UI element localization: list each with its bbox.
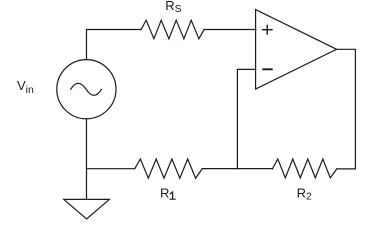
svg-text:RS: RS xyxy=(165,0,181,15)
svg-text:R2: R2 xyxy=(297,186,312,203)
svg-text:R: R xyxy=(160,185,169,200)
svg-text:Vin: Vin xyxy=(17,78,34,96)
